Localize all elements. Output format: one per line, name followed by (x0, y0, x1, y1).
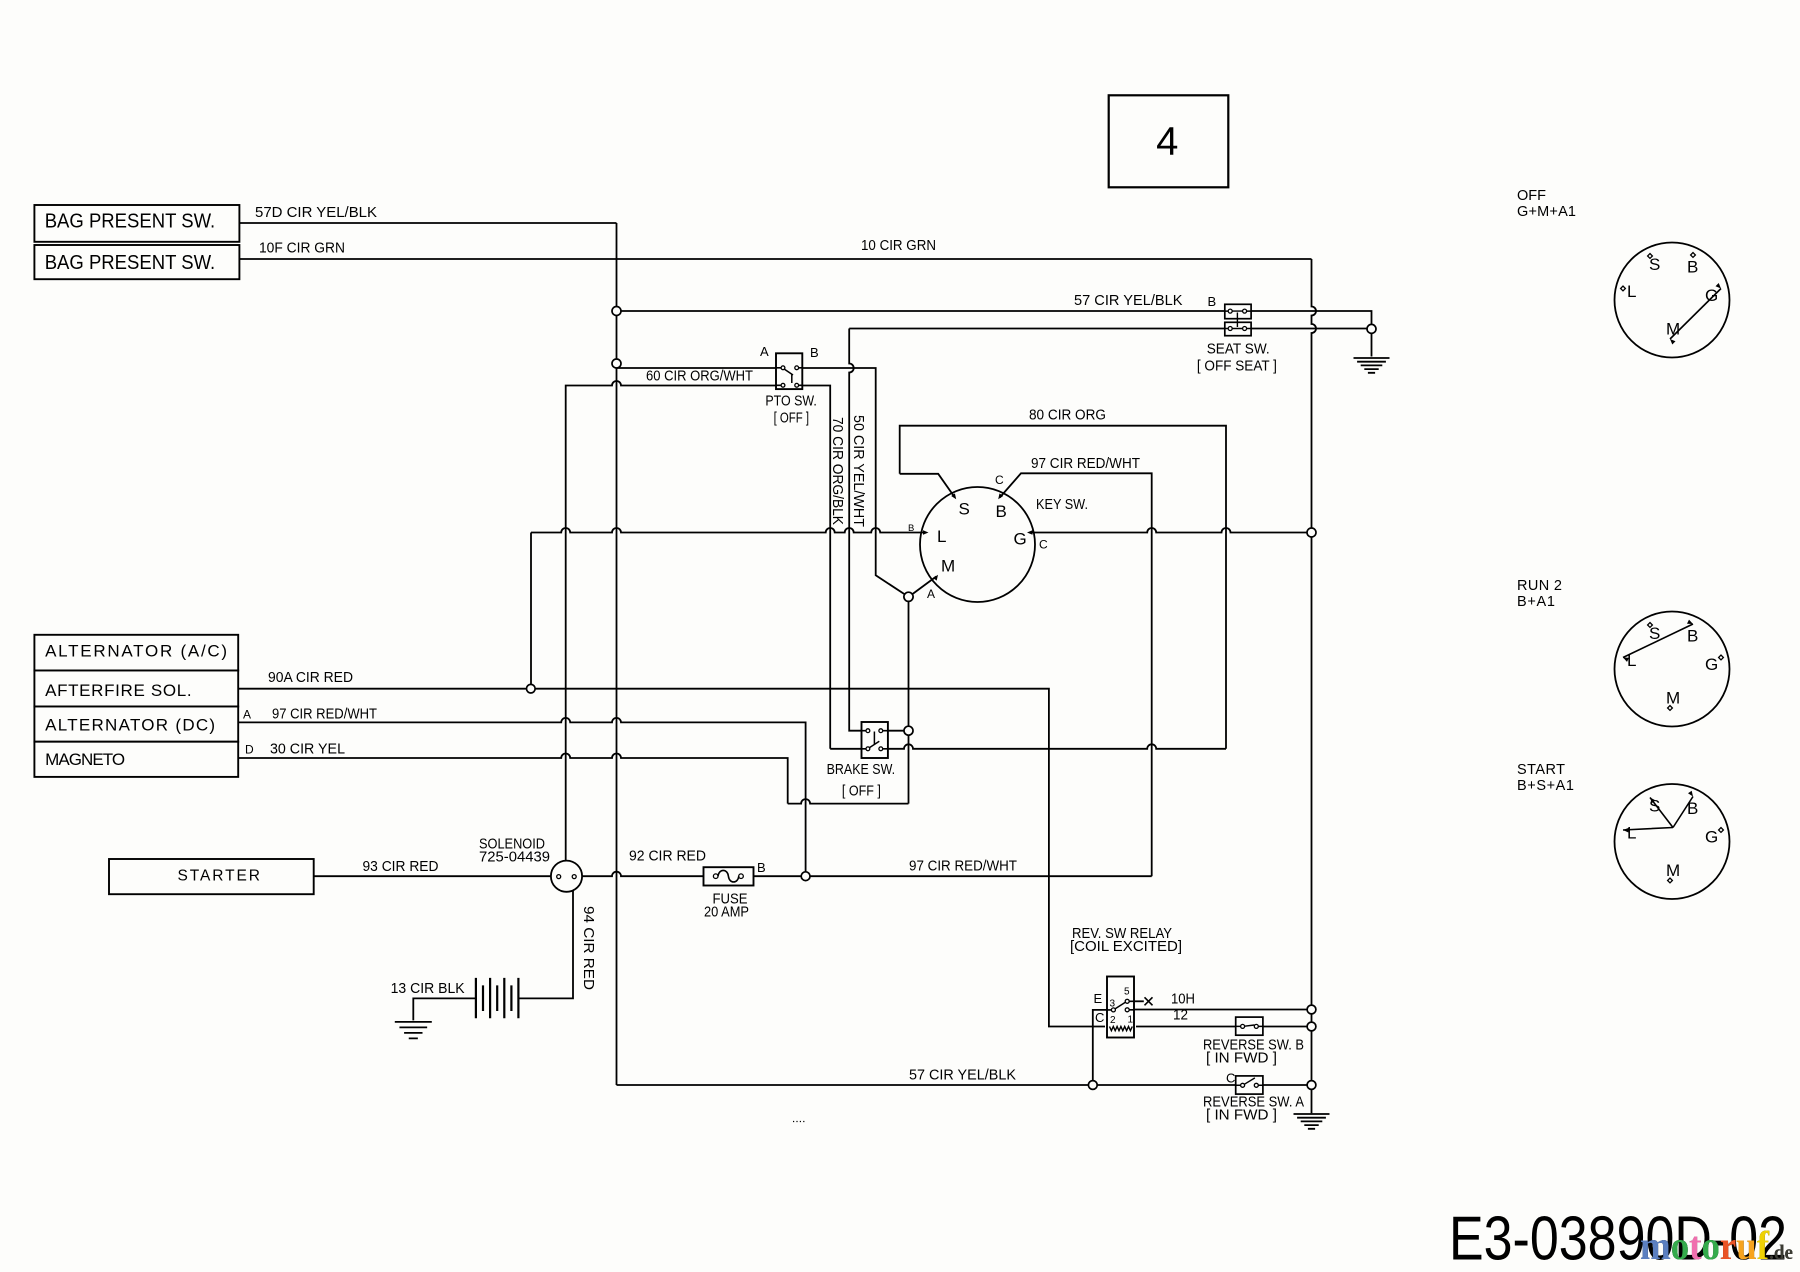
svg-text:57D CIR YEL/BLK: 57D CIR YEL/BLK (255, 205, 377, 221)
wire 97 CIR RED/WHT from B (1000, 473, 1152, 876)
svg-text:SEAT SW.: SEAT SW. (1207, 342, 1270, 358)
ground at battery (395, 1022, 432, 1039)
svg-text:10F CIR GRN: 10F CIR GRN (259, 241, 345, 257)
wire key M to junction (912, 577, 937, 595)
svg-text:C: C (1226, 1071, 1235, 1086)
dotted mark (793, 1121, 805, 1123)
svg-text:M: M (941, 557, 955, 576)
wire 70 CIR ORG/BLK (566, 381, 831, 861)
wire 10H (1132, 1009, 1308, 1011)
wire 30 CIR YEL magneto (239, 754, 909, 804)
svg-text:10 CIR GRN: 10 CIR GRN (861, 238, 936, 254)
starter box (109, 859, 314, 894)
battery plates (476, 978, 519, 1018)
reverse switch B body (1236, 1017, 1263, 1035)
node bag junction lower (612, 359, 621, 368)
key switch pin arrows (951, 493, 956, 499)
svg-text:B: B (757, 860, 766, 875)
svg-text:[ OFF SEAT ]: [ OFF SEAT ] (1197, 359, 1277, 375)
svg-text:L: L (937, 527, 946, 546)
wire 57D CIR YEL/BLK from bag switch (240, 222, 617, 224)
wire brake top to C junction (883, 730, 904, 732)
svg-text:G+M+A1: G+M+A1 (1517, 204, 1576, 220)
sheet number box (1109, 95, 1229, 187)
svg-text:50 CIR YEL/WHT: 50 CIR YEL/WHT (850, 415, 866, 527)
bag present switch S1 box (34, 205, 239, 242)
alternator (A/C) box (34, 635, 238, 671)
svg-text:E: E (1094, 991, 1103, 1006)
svg-text:L: L (1627, 282, 1636, 301)
reverse switch B contacts (1241, 1024, 1245, 1028)
svg-text:[ IN FWD ]: [ IN FWD ] (1206, 1108, 1277, 1124)
wire fuse to key B riser (754, 875, 1152, 877)
wire key sw G out (1030, 528, 1308, 533)
svg-text:S: S (959, 500, 970, 519)
key position diagram OFF (1615, 243, 1730, 358)
afterfire solenoid box (34, 671, 238, 707)
svg-text:BAG PRESENT SW.: BAG PRESENT SW. (45, 210, 216, 233)
svg-text:M: M (1666, 861, 1680, 880)
key position diagram RUN 2 (1615, 612, 1730, 727)
svg-text:60 CIR ORG/WHT: 60 CIR ORG/WHT (646, 369, 753, 385)
alternator (DC) box (34, 707, 238, 742)
svg-text:L: L (1627, 824, 1636, 843)
brake switch body (862, 722, 888, 758)
bag present switch S2 box (34, 245, 239, 279)
svg-text:M: M (1666, 689, 1680, 708)
svg-text:94 CIR RED: 94 CIR RED (580, 906, 596, 990)
wire 94 CIR RED battery to solenoid (518, 890, 573, 998)
svg-text:PTO SW.: PTO SW. (765, 394, 817, 410)
wire relay pin3 to 57 (1093, 1010, 1109, 1081)
svg-text:A: A (760, 344, 769, 359)
svg-text:57 CIR YEL/BLK: 57 CIR YEL/BLK (909, 1068, 1016, 1084)
magneto box (34, 742, 238, 777)
svg-text:30 CIR YEL: 30 CIR YEL (270, 742, 345, 758)
svg-text:B: B (996, 502, 1007, 521)
seat switch upper contact box (1225, 304, 1251, 318)
node 57 junction right (1307, 1081, 1316, 1090)
wire 12 to reverse sw B (1136, 1026, 1307, 1028)
node key M junction (904, 592, 913, 601)
svg-text:OFF: OFF (1517, 188, 1546, 204)
ground at reverse switch A (1294, 1114, 1330, 1129)
wire main left vertical 616 (616, 223, 618, 1085)
wire 80 CIR ORG (900, 426, 1226, 749)
terminator X 10H (1145, 997, 1153, 1005)
svg-text:2: 2 (1110, 1015, 1116, 1026)
svg-text:G: G (1705, 655, 1718, 674)
svg-text:A: A (927, 587, 935, 601)
svg-text:RUN 2: RUN 2 (1517, 578, 1562, 594)
wire 10F CIR GRN / 10 CIR GRN (240, 258, 1312, 260)
wire 97 CIR RED/WHT alt dc (239, 718, 806, 872)
svg-text:1: 1 (1128, 1015, 1134, 1026)
svg-text:93 CIR RED: 93 CIR RED (363, 859, 439, 875)
svg-text:10H: 10H (1171, 992, 1195, 1008)
svg-text:12: 12 (1173, 1008, 1188, 1024)
reverse switch A body (1236, 1076, 1263, 1094)
reverse switch A contacts (1241, 1083, 1245, 1087)
svg-text:START: START (1517, 762, 1565, 778)
svg-text:S: S (1649, 255, 1660, 274)
ground at seat switch (1354, 358, 1390, 373)
svg-text:D: D (245, 743, 254, 757)
svg-text:C: C (1039, 538, 1048, 552)
wire 57 CIR YEL/BLK to seat switch (617, 311, 1372, 324)
node 97 junction at fuse (801, 872, 810, 881)
svg-text:4: 4 (1156, 119, 1178, 163)
wire 90A CIR RED (239, 689, 1105, 1027)
svg-text:ALTERNATOR (DC): ALTERNATOR (DC) (45, 716, 215, 735)
node key G junction (1307, 528, 1316, 537)
svg-text:[ IN FWD ]: [ IN FWD ] (1206, 1051, 1277, 1067)
svg-text:S: S (1649, 624, 1660, 643)
fuse element (713, 874, 718, 879)
svg-text:3: 3 (1110, 998, 1116, 1009)
svg-text:B: B (810, 345, 819, 360)
svg-text:70 CIR ORG/BLK: 70 CIR ORG/BLK (829, 417, 845, 525)
wire junction drop 531 (530, 533, 532, 685)
wire 92/97 CIR RED fuse row (582, 872, 703, 876)
PTO switch contacts (781, 366, 785, 370)
wire relay X stub (1132, 1000, 1144, 1002)
node seat ground junction (1367, 324, 1376, 333)
wire magneto riser to brake C (908, 601, 910, 803)
wire seat ground drop (1371, 333, 1373, 356)
svg-text:97 CIR RED/WHT: 97 CIR RED/WHT (909, 859, 1017, 875)
svg-text:G: G (1705, 828, 1718, 847)
svg-text:90A CIR RED: 90A CIR RED (268, 670, 353, 686)
seat switch contacts (1228, 309, 1232, 313)
svg-text:20 AMP: 20 AMP (704, 905, 749, 921)
svg-text:[COIL EXCITED]: [COIL EXCITED] (1070, 939, 1182, 955)
svg-text:13 CIR BLK: 13 CIR BLK (391, 981, 465, 997)
key position diagram START (1615, 784, 1730, 899)
svg-text:92 CIR RED: 92 CIR RED (629, 849, 706, 865)
svg-text:97 CIR RED/WHT: 97 CIR RED/WHT (272, 707, 377, 723)
svg-text:[ OFF ]: [ OFF ] (842, 784, 881, 800)
PTO switch body (776, 353, 802, 389)
node 10H junction (1307, 1005, 1316, 1014)
svg-text:97 CIR RED/WHT: 97 CIR RED/WHT (1031, 456, 1140, 472)
solenoid terminals (557, 875, 561, 879)
svg-text:C: C (995, 473, 1004, 487)
svg-text:AFTERFIRE SOL.: AFTERFIRE SOL. (45, 681, 192, 700)
brake switch contacts (866, 729, 870, 733)
svg-text:B: B (1687, 799, 1698, 818)
wire 60 CIR ORG/WHT (617, 368, 905, 594)
wire key sw L feed (531, 528, 926, 533)
svg-text:S: S (1649, 797, 1660, 816)
wire starter to solenoid 93 CIR RED (314, 875, 551, 877)
svg-text:B: B (1687, 258, 1698, 277)
svg-text:80 CIR ORG: 80 CIR ORG (1029, 408, 1106, 424)
svg-text:C: C (1095, 1010, 1104, 1025)
wire brake bottom row (830, 744, 1226, 749)
svg-text:5: 5 (1124, 987, 1130, 998)
svg-text:B+S+A1: B+S+A1 (1517, 778, 1574, 794)
fuse 20A body (704, 867, 754, 885)
wire 13 CIR BLK (413, 998, 476, 1020)
node 12 junction (1307, 1022, 1316, 1031)
svg-text:L: L (1627, 651, 1636, 670)
svg-text:725-04439: 725-04439 (479, 850, 550, 866)
wire green vertical 1311 (1312, 259, 1317, 1113)
svg-text:KEY SW.: KEY SW. (1036, 497, 1088, 513)
svg-text:BRAKE SW.: BRAKE SW. (827, 762, 896, 778)
svg-text:MAGNETO: MAGNETO (45, 750, 125, 769)
svg-text:B: B (1687, 627, 1698, 646)
seat switch lower contact box (1225, 322, 1251, 335)
node 90A junction (527, 684, 536, 693)
node 57 junction left (1088, 1081, 1097, 1090)
svg-text:B+A1: B+A1 (1517, 594, 1555, 610)
svg-text:G: G (1014, 530, 1027, 549)
svg-text:B: B (908, 523, 914, 534)
svg-text:A: A (243, 708, 251, 722)
svg-text:BAG PRESENT SW.: BAG PRESENT SW. (45, 251, 216, 274)
svg-text:B: B (1208, 294, 1217, 309)
reverse switch relay K1 body (1107, 977, 1134, 1038)
svg-text:M: M (1666, 320, 1680, 339)
node brake C junction (904, 726, 913, 735)
solenoid 725-04439 body (551, 861, 582, 892)
svg-text:57 CIR YEL/BLK: 57 CIR YEL/BLK (1074, 293, 1183, 309)
key switch U1 body (920, 487, 1035, 602)
svg-text:G: G (1705, 286, 1718, 305)
wire 80 to S pin (900, 474, 955, 497)
wire seat sw bottom row (849, 328, 1367, 330)
wire 57 CIR YEL/BLK bottom (617, 1084, 1308, 1086)
node bag junction upper (612, 307, 621, 316)
wire seat switch lower to ground junction (849, 329, 866, 731)
svg-text:[ OFF ]: [ OFF ] (774, 411, 810, 427)
relay contacts and coil (1111, 1008, 1115, 1012)
